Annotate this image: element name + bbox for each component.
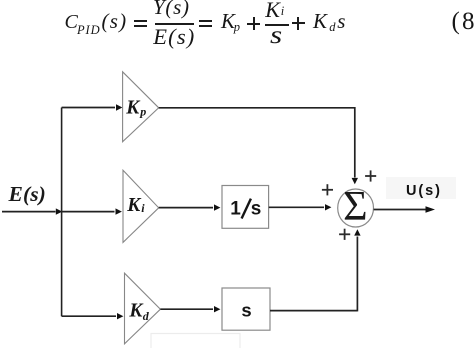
wire 1/s output to summing junction (left) <box>269 204 332 210</box>
svg-text:s: s <box>241 299 251 320</box>
integrator block 1/s <box>222 186 269 229</box>
fraction denominator E(s) <box>153 26 195 49</box>
label 1/s <box>230 199 261 220</box>
fraction bar Y(s)/E(s) <box>155 23 195 25</box>
plus sign 1 <box>247 23 260 25</box>
subscript PID <box>77 24 101 37</box>
wire Kd output to s block <box>160 306 220 312</box>
label Kd <box>128 300 149 323</box>
node branch point / vertical bus <box>61 108 63 317</box>
fraction denominator s <box>270 23 282 48</box>
summing junction U1 (circle with sigma) <box>338 189 374 227</box>
svg-text:E(s): E(s) <box>8 182 46 206</box>
term C <box>65 12 78 32</box>
term (s) <box>102 11 128 32</box>
plus sign 2 <box>292 22 305 24</box>
equals sign 2 <box>199 20 212 22</box>
term Kp <box>221 11 235 32</box>
wire Ki output to 1/s block <box>159 204 221 210</box>
fraction numerator Y(s) <box>153 0 190 18</box>
wire branch to Kd <box>62 313 124 319</box>
svg-text:p: p <box>139 104 146 118</box>
plus sign bottom input <box>339 229 350 240</box>
fraction bar Ki/s <box>265 24 289 26</box>
label Kp <box>125 97 146 118</box>
wire branch to Kp <box>62 104 123 110</box>
gain block Kd (triangle) <box>125 273 161 344</box>
wire input E(s) <box>2 208 62 214</box>
equation number (8) <box>452 9 474 34</box>
derivative block s <box>222 288 270 330</box>
plus sign left input <box>322 184 333 195</box>
wire s output to summing junction (bottom) <box>270 229 361 311</box>
svg-text:d: d <box>143 309 150 323</box>
svg-text:Σ: Σ <box>343 184 367 230</box>
equals sign 1 <box>134 20 147 22</box>
svg-text:s: s <box>251 199 262 220</box>
term s <box>337 11 345 32</box>
gain block Kp (triangle) <box>123 72 159 142</box>
label Ki <box>126 195 145 216</box>
svg-text:1: 1 <box>230 199 241 220</box>
term Kd <box>313 11 327 32</box>
svg-text:K: K <box>125 97 141 118</box>
fraction numerator Ki <box>265 0 280 21</box>
gain block Ki (triangle) <box>123 170 159 242</box>
wire output U(s) <box>374 206 435 213</box>
plus sign top input <box>365 170 376 181</box>
faint highlight band behind U(s) <box>386 177 456 199</box>
faint ghost rectangle artifact bottom <box>151 334 240 348</box>
svg-text:K: K <box>126 195 142 216</box>
svg-text:U(s): U(s) <box>406 183 442 199</box>
wire Kp output to summing junction (top) <box>159 107 358 184</box>
wire branch to Ki <box>62 208 122 214</box>
